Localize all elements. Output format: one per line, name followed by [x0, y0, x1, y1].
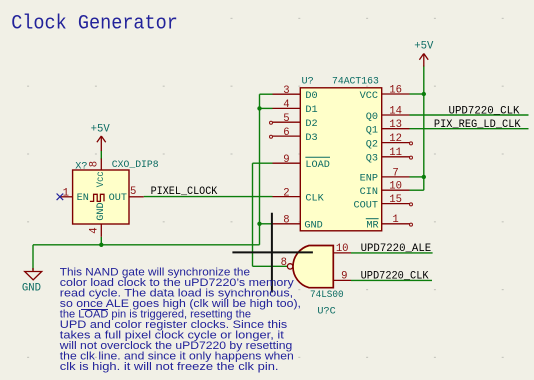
svg-text:VCC: VCC	[360, 91, 378, 102]
pin 6 D3 (NC)	[273, 135, 301, 137]
counter U? 74ACT163	[270, 77, 413, 232]
junction D1	[257, 106, 261, 110]
svg-text:OUT: OUT	[109, 193, 127, 204]
svg-text:GND: GND	[22, 283, 41, 295]
pin 11 Q3 (NC)	[382, 156, 410, 158]
oscillator body	[73, 170, 129, 224]
svg-text:4: 4	[283, 99, 289, 111]
oscillator X? CXO_DIP8	[57, 159, 159, 237]
wire ENP stub	[410, 176, 424, 178]
svg-text:CIN: CIN	[360, 187, 378, 198]
svg-text:Q0: Q0	[366, 112, 378, 123]
pin 8 GND	[273, 223, 301, 225]
junction ENP/+5V	[422, 175, 426, 179]
wire ground rail horizontal	[33, 244, 260, 246]
pin 10 CIN	[382, 189, 410, 191]
no-connect X on pin 1	[57, 194, 64, 201]
svg-text:COUT: COUT	[354, 200, 378, 211]
wire D0 stub	[260, 93, 273, 95]
pin 2 CLK	[273, 196, 301, 198]
svg-text:74LS00: 74LS00	[310, 290, 344, 301]
pin 5 D2 (NC)	[273, 121, 301, 123]
pin 7 ENP	[382, 176, 410, 178]
svg-text:MR: MR	[366, 221, 378, 232]
svg-text:13: 13	[389, 119, 402, 131]
wire oscillator pin8 to +5V	[100, 151, 102, 160]
svg-text:Q3: Q3	[366, 154, 378, 165]
svg-text:Clock Generator: Clock Generator	[11, 13, 178, 36]
wire CIN stub	[410, 189, 424, 191]
NAND input pin 10	[333, 252, 351, 254]
svg-text:UPD7220_ALE: UPD7220_ALE	[361, 243, 432, 255]
svg-text:1: 1	[392, 214, 398, 226]
svg-text:9: 9	[283, 154, 289, 166]
svg-text:8: 8	[283, 215, 289, 227]
black annotation line vertical	[271, 213, 273, 293]
pin 4 D1	[273, 107, 301, 109]
pin 12 Q2 (NC)	[382, 142, 410, 144]
svg-text:CLK: CLK	[305, 193, 324, 204]
wire Q1 / PIX_REG_LD_CLK	[410, 128, 529, 130]
wire +5V vertical for 163	[423, 66, 425, 191]
wire oscillator pin4 to rail	[100, 237, 102, 245]
pin 13 Q1	[382, 128, 410, 130]
junction oscillator pin4/rail	[99, 243, 103, 247]
pin 3 D0	[273, 93, 301, 95]
wire GND pin stub	[260, 223, 273, 225]
svg-text:3: 3	[283, 85, 289, 97]
svg-text:GND: GND	[96, 202, 107, 220]
svg-text:10: 10	[336, 243, 349, 255]
svg-text:+5V: +5V	[91, 124, 111, 136]
svg-text:11: 11	[389, 147, 402, 159]
NAND gate U?C 74LS00	[281, 243, 351, 317]
wire D0/D1/GND vertical bus	[259, 94, 261, 245]
svg-text:Q2: Q2	[366, 139, 378, 150]
svg-text:4: 4	[88, 227, 100, 233]
svg-text:74ACT163: 74ACT163	[332, 77, 379, 88]
grid dots (decorative)	[27, 18, 504, 358]
junction VCC/+5V	[422, 92, 426, 96]
black annotation line horizontal	[232, 251, 313, 253]
svg-text:X?: X?	[75, 161, 87, 172]
power +5V symbol (oscillator)	[97, 136, 106, 151]
svg-text:5: 5	[283, 113, 289, 125]
svg-text:CXO_DIP8: CXO_DIP8	[112, 160, 159, 171]
svg-text:UPD7220_CLK: UPD7220_CLK	[449, 106, 520, 118]
svg-text:15: 15	[389, 194, 402, 206]
svg-text:PIX_REG_LD_CLK: PIX_REG_LD_CLK	[434, 119, 521, 131]
pin 16 VCC	[382, 93, 410, 95]
wire NAND input 9 / UPD7220_CLK	[351, 279, 432, 281]
svg-text:LOAD: LOAD	[305, 160, 329, 171]
comment text block	[59, 267, 301, 374]
svg-text:8: 8	[88, 161, 100, 167]
svg-text:2: 2	[283, 187, 289, 199]
wire PIXEL_CLOCK horizontal	[144, 196, 273, 198]
74ACT163 body	[300, 88, 381, 231]
svg-text:U?C: U?C	[317, 307, 335, 318]
wire NAND input 10 / UPD7220_ALE	[351, 252, 433, 254]
svg-text:8: 8	[281, 257, 287, 269]
svg-text:ENP: ENP	[360, 174, 378, 185]
oscillator pin 4 GND (bottom)	[100, 224, 102, 237]
pin 9 LOAD	[273, 162, 301, 164]
svg-text:D1: D1	[305, 105, 317, 116]
svg-text:14: 14	[389, 105, 402, 117]
oscillator pin 8 Vcc (top)	[100, 159, 102, 171]
wire Q0 / UPD7220_CLK	[410, 114, 529, 116]
svg-text:6: 6	[283, 127, 289, 139]
svg-text:Vcc: Vcc	[96, 171, 107, 187]
oscillator pin 1 EN	[60, 196, 73, 198]
NAND output bubble	[287, 264, 292, 269]
svg-text:D2: D2	[305, 119, 317, 130]
svg-text:7: 7	[392, 167, 398, 179]
svg-text:U?: U?	[302, 77, 314, 88]
svg-text:9: 9	[341, 271, 347, 283]
wire ground rail drop to GND symbol	[32, 245, 34, 270]
svg-text:1: 1	[63, 187, 69, 199]
svg-text:D3: D3	[305, 133, 317, 144]
wire LOAD vertical to NAND output	[252, 163, 254, 266]
svg-text:Q1: Q1	[366, 126, 378, 137]
overline over LOAD in comment line 5	[81, 309, 108, 311]
svg-text:12: 12	[389, 133, 402, 145]
svg-text:10: 10	[389, 181, 402, 193]
svg-text:+5V: +5V	[414, 41, 434, 53]
pin 15 COUT (NC)	[382, 203, 410, 205]
pin 14 Q0	[382, 114, 410, 116]
svg-text:GND: GND	[304, 221, 322, 232]
svg-text:PIXEL_CLOCK: PIXEL_CLOCK	[151, 186, 218, 198]
wire LOAD stub	[253, 162, 273, 164]
svg-text:UPD7220_CLK: UPD7220_CLK	[361, 270, 429, 282]
power +5V symbol (74ACT163)	[419, 54, 428, 67]
wire NAND output horizontal	[253, 265, 288, 267]
oscillator clock waveform symbol	[90, 194, 104, 201]
NAND body (mirrored AND shape)	[293, 246, 333, 288]
svg-text:16: 16	[389, 84, 402, 96]
svg-text:D0: D0	[305, 91, 317, 102]
oscillator pin 5 OUT	[129, 196, 144, 198]
pin 1 MR (NC)	[382, 223, 410, 225]
svg-text:EN: EN	[77, 193, 89, 204]
svg-text:clk is high. it will not freez: clk is high. it will not freeze the clk …	[60, 361, 279, 373]
junction GND pin	[257, 222, 261, 226]
ground symbol	[25, 268, 42, 280]
svg-text:5: 5	[130, 186, 136, 198]
NAND input pin 9	[333, 279, 351, 281]
wire D1 stub	[260, 107, 273, 109]
wire VCC stub	[410, 93, 424, 95]
